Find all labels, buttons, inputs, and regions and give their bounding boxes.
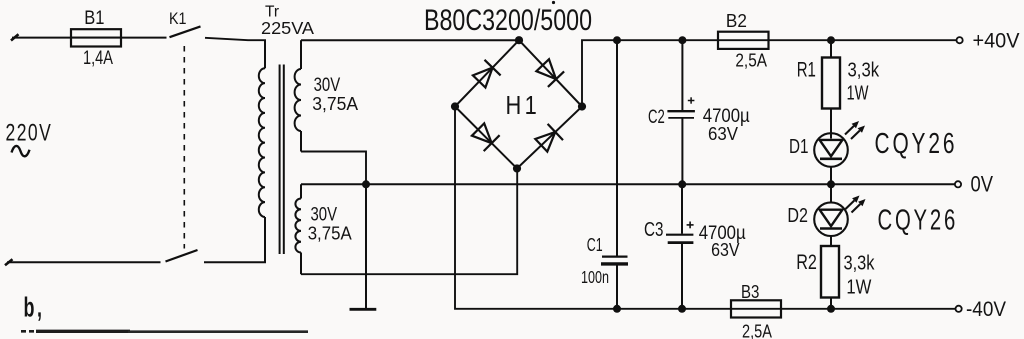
wire R1 to D1 (830, 109, 832, 139)
transformer secondary 1 winding (295, 69, 301, 131)
svg-text:CQY26: CQY26 (878, 204, 959, 236)
label ~ (AC) (12, 146, 30, 156)
LED D2 (814, 202, 848, 236)
node D1/D2 0V rail (827, 180, 835, 188)
wire secondary 2 to bridge (AC2) (301, 169, 517, 275)
node C2 + rail (678, 36, 686, 44)
wire secondary 1 to bridge (AC1) (301, 39, 519, 41)
svg-text:B3: B3 (741, 281, 759, 302)
svg-text:R1: R1 (797, 59, 816, 82)
svg-text:1W: 1W (847, 82, 869, 104)
terminal +40V (957, 37, 963, 43)
switch K1 link (dashed) (183, 46, 185, 249)
fuse B3 (731, 300, 781, 317)
resistor R2 (821, 246, 839, 298)
switch K1 top pole (170, 26, 201, 37)
ground symbol (350, 308, 377, 311)
svg-text:R2: R2 (796, 251, 817, 274)
node R2 - rail (827, 305, 835, 313)
svg-text:1,4A: 1,4A (83, 47, 113, 69)
wire 0V rail (301, 183, 955, 185)
fuse B1 (71, 29, 121, 46)
svg-text:K1: K1 (169, 9, 187, 28)
wire C1 bottom lead (616, 264, 618, 309)
diode bridge D-a (left to top) (473, 68, 493, 88)
wire C2 top lead (681, 40, 683, 110)
bridge H1 frame (455, 40, 582, 168)
diode bridge D-d (bottom to right) (535, 132, 555, 152)
node C1 + rail (613, 36, 621, 44)
svg-text:H1: H1 (506, 91, 541, 120)
svg-text:225VA: 225VA (261, 18, 314, 38)
node bridge top (515, 36, 523, 44)
transformer primary vertical leads (264, 40, 266, 68)
wire 0V to D2 (830, 184, 832, 203)
svg-text:C2: C2 (648, 107, 665, 128)
svg-text:3,75A: 3,75A (312, 94, 358, 114)
noise dot (552, 1, 555, 4)
svg-text:3,3k: 3,3k (848, 60, 880, 82)
node bridge left (451, 102, 459, 110)
wire bridge left to -rail (455, 107, 955, 309)
transformer core (279, 65, 281, 255)
svg-text:b,: b, (24, 291, 45, 322)
node R1 + rail (827, 36, 835, 44)
wire mains input bottom (N) (5, 259, 13, 265)
transformer secondary 2 winding (295, 199, 301, 253)
wire centre tap upper (301, 152, 366, 185)
svg-text:B80C3200/5000: B80C3200/5000 (424, 4, 592, 37)
wire switch to primary bottom (204, 261, 266, 263)
wire D1 to 0V (830, 166, 832, 184)
svg-text:1W: 1W (846, 276, 871, 298)
capacitor C3 (polarized) (666, 234, 693, 236)
wire switch to primary (205, 38, 266, 40)
wire mains input top (L) (11, 34, 19, 40)
transformer secondary 2 leads (300, 184, 302, 198)
fuse B2 (718, 32, 769, 49)
wire D2 to R2 (830, 236, 832, 246)
diode bridge D-c (left to bottom) (472, 123, 492, 143)
transformer primary winding (259, 68, 265, 217)
node centre tap (362, 180, 370, 188)
wire C2 bottom lead (681, 118, 683, 184)
svg-text:+40V: +40V (973, 30, 1020, 53)
svg-text:C3: C3 (644, 219, 663, 241)
svg-text:CQY26: CQY26 (875, 128, 958, 160)
C3 plus sign (687, 224, 694, 226)
svg-text:C1: C1 (587, 235, 603, 255)
svg-text:100n: 100n (581, 267, 609, 287)
svg-text:63V: 63V (708, 124, 738, 144)
node C1 - rail (613, 305, 621, 313)
svg-text:B1: B1 (84, 7, 104, 29)
capacitor C2 (polarized) (667, 110, 695, 112)
node bridge bottom (513, 164, 521, 172)
node C3 - rail (678, 305, 686, 313)
svg-text:220V: 220V (6, 120, 53, 146)
svg-text:D1: D1 (789, 136, 809, 158)
terminal 0V (955, 181, 961, 187)
node bridge right (578, 102, 586, 110)
LED D1 (814, 133, 848, 167)
svg-text:3,3k: 3,3k (844, 253, 876, 275)
wire C3 bottom lead (681, 243, 683, 309)
svg-text:3,75A: 3,75A (308, 224, 352, 244)
svg-text:0V: 0V (971, 172, 994, 197)
C2 plus sign (688, 100, 695, 102)
svg-text:-40V: -40V (966, 298, 1006, 321)
diode bridge D-b (top to right) (536, 59, 556, 79)
terminal -40V (956, 306, 962, 312)
switch K1 bottom pole (166, 250, 198, 262)
wire bridge right to +rail (582, 40, 956, 106)
svg-text:2,5A: 2,5A (742, 321, 772, 339)
transformer secondary 1 leads (300, 40, 302, 69)
svg-text:63V: 63V (711, 240, 739, 260)
page edge line (21, 330, 36, 333)
svg-text:D2: D2 (787, 205, 808, 227)
node C2/C3 0V rail (678, 180, 686, 188)
D1 emission arrows (845, 126, 854, 135)
D2 emission arrows (846, 201, 855, 210)
capacitor C1 (602, 256, 628, 258)
svg-text:B2: B2 (726, 10, 747, 31)
svg-text:30V: 30V (311, 205, 338, 226)
wire centre tap to ground (365, 184, 367, 309)
wire R1 top lead (830, 40, 832, 57)
resistor R1 (822, 58, 840, 109)
wire R2 to -rail (830, 298, 832, 309)
svg-text:2,5A: 2,5A (735, 50, 767, 71)
wire C1 top lead (616, 40, 618, 255)
wire C3 top lead (681, 184, 683, 233)
